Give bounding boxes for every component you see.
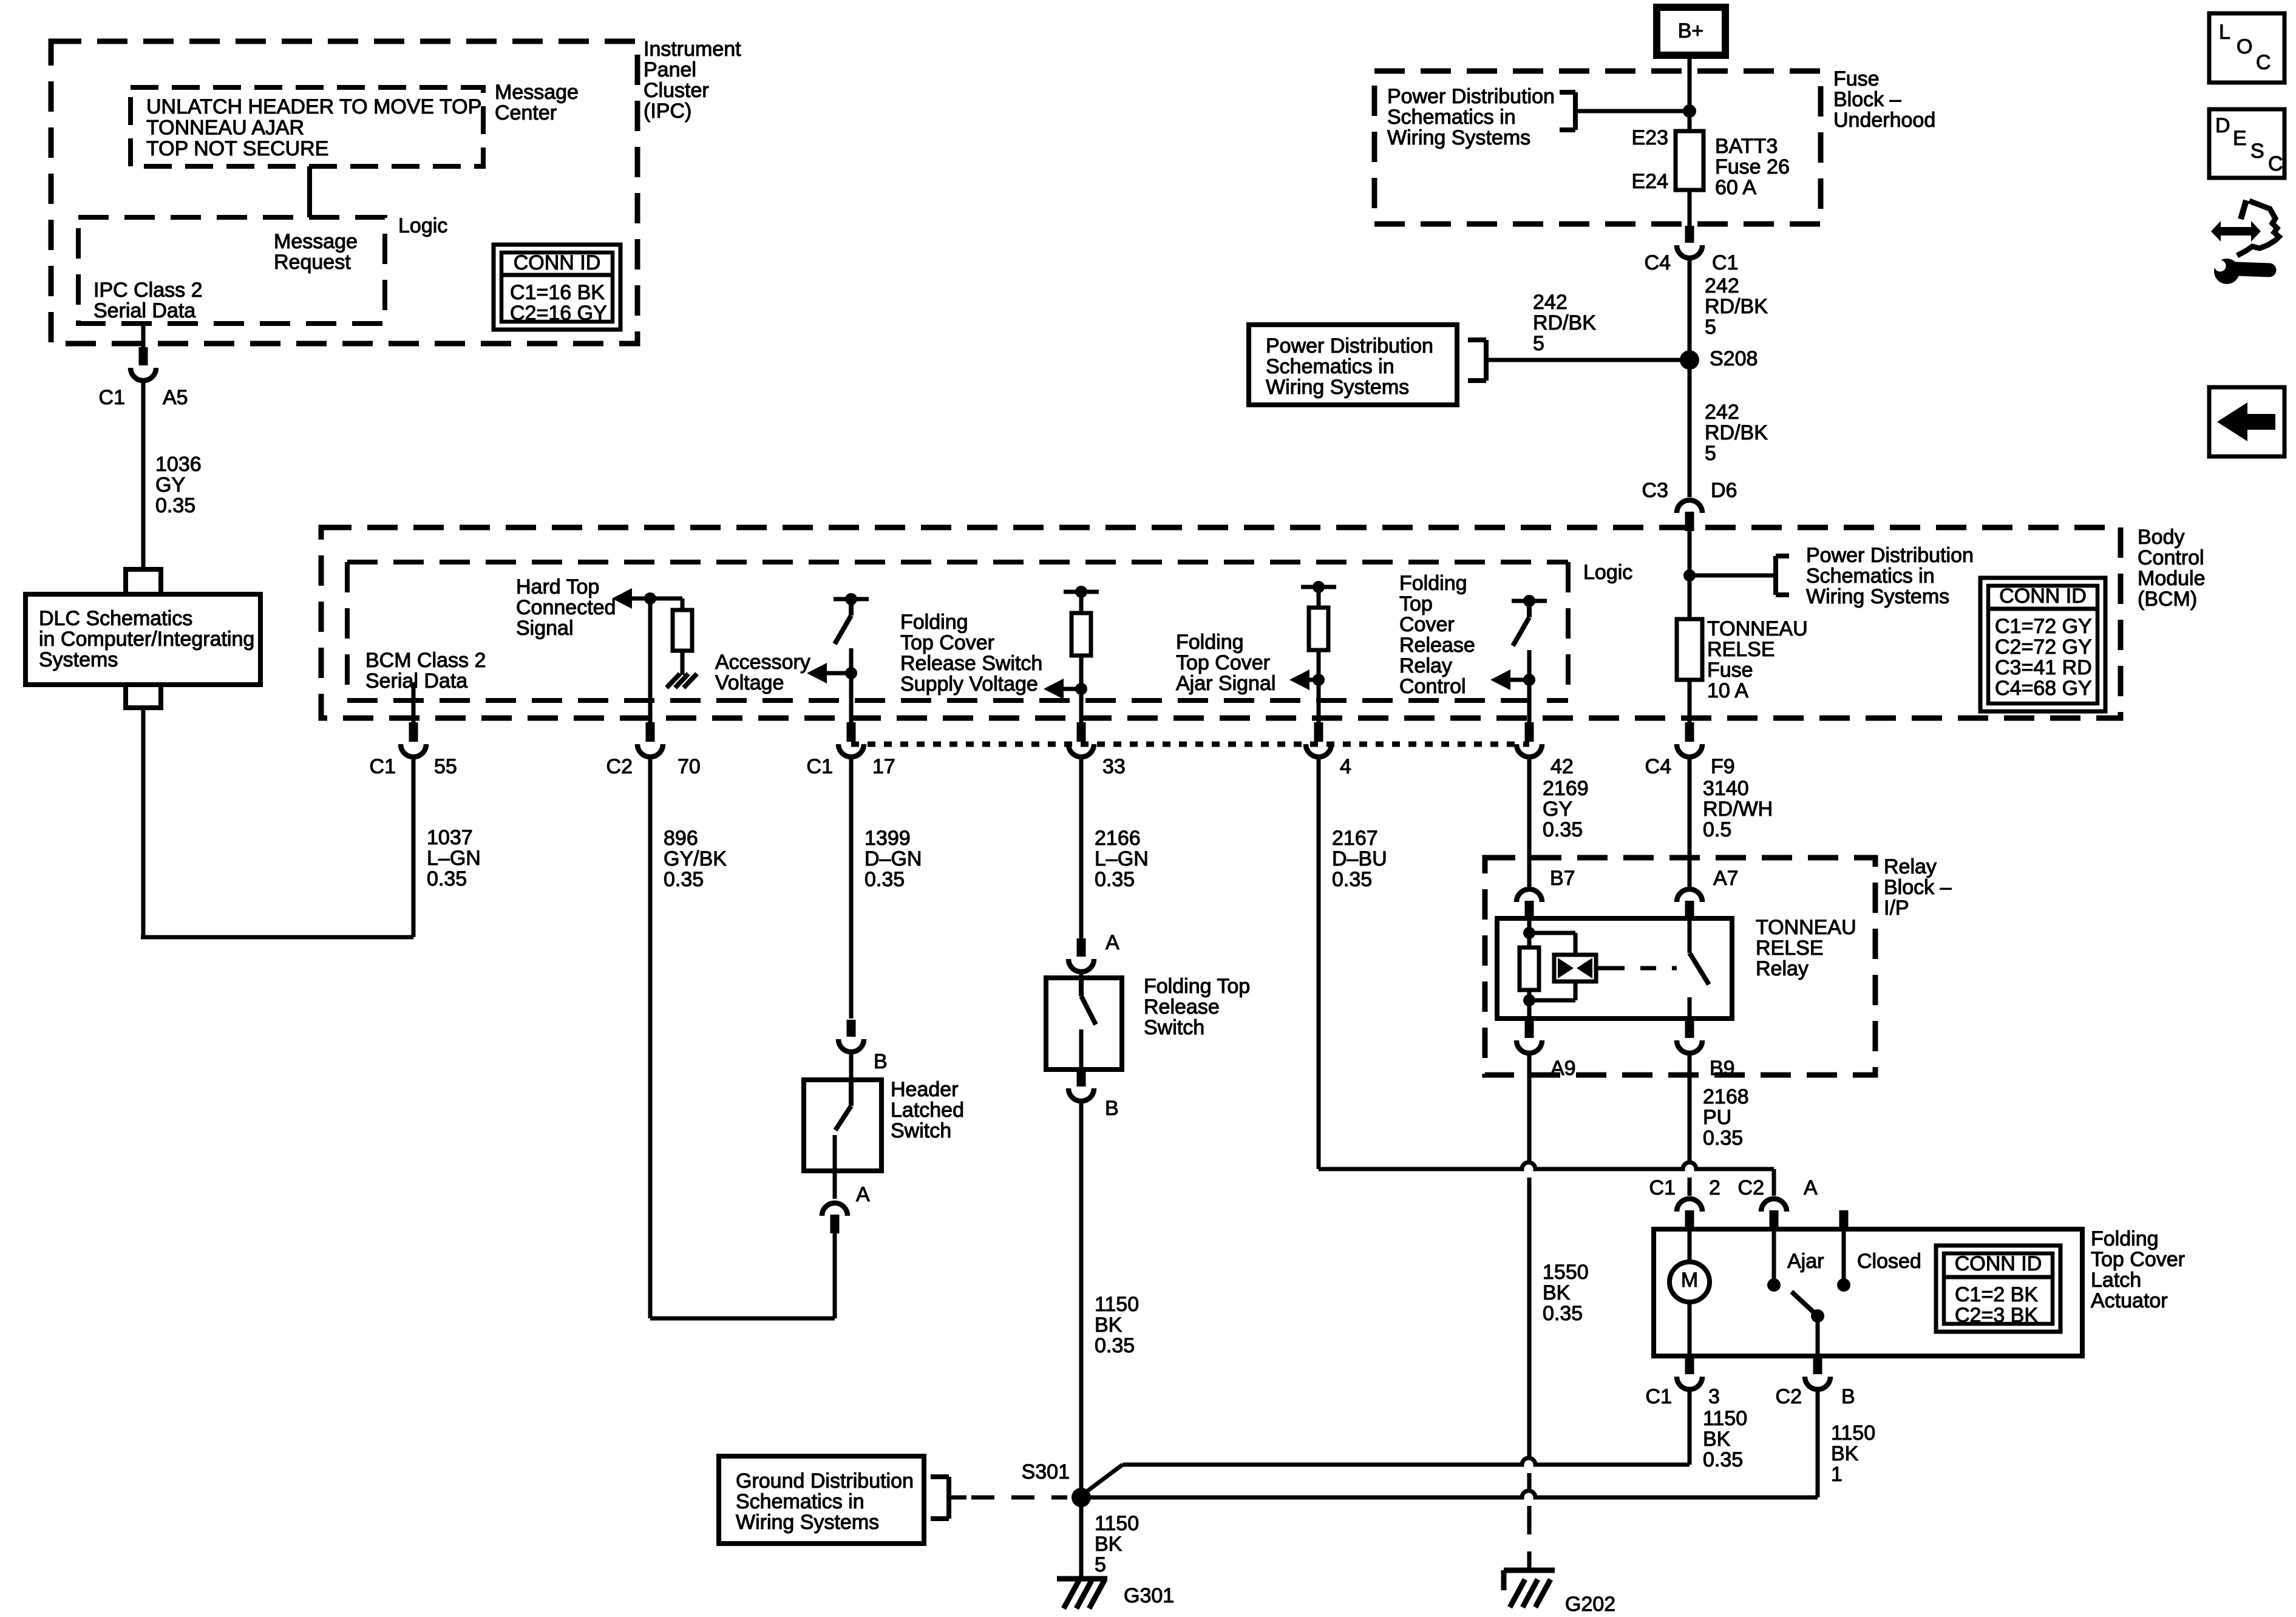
svg-text:1150: 1150 <box>1831 1422 1875 1445</box>
svg-text:UNLATCH HEADER TO MOVE TOP: UNLATCH HEADER TO MOVE TOP <box>146 95 481 118</box>
svg-text:C2: C2 <box>606 755 633 778</box>
svg-text:0.35: 0.35 <box>1095 1334 1135 1357</box>
svg-text:Power Distribution: Power Distribution <box>1806 544 1974 567</box>
svg-text:E: E <box>2233 127 2247 150</box>
svg-text:Header: Header <box>891 1078 959 1101</box>
svg-text:Folding: Folding <box>1176 631 1244 654</box>
svg-text:Center: Center <box>495 101 557 124</box>
svg-text:Voltage: Voltage <box>715 671 784 694</box>
svg-text:1150: 1150 <box>1095 1512 1139 1535</box>
svg-text:B7: B7 <box>1550 867 1575 890</box>
svg-text:5: 5 <box>1705 442 1716 465</box>
svg-text:(IPC): (IPC) <box>644 100 691 123</box>
svg-text:E24: E24 <box>1632 170 1669 193</box>
svg-text:Relay: Relay <box>1884 855 1937 878</box>
svg-text:0.35: 0.35 <box>1543 818 1583 841</box>
svg-text:E23: E23 <box>1632 126 1669 149</box>
svg-text:3: 3 <box>1708 1385 1720 1408</box>
svg-text:GY: GY <box>1543 798 1572 821</box>
svg-text:Panel: Panel <box>644 58 696 81</box>
svg-text:C1: C1 <box>1646 1385 1672 1408</box>
svg-text:Wiring Systems: Wiring Systems <box>736 1511 879 1534</box>
svg-text:Switch: Switch <box>891 1119 951 1142</box>
svg-text:Release: Release <box>1144 995 1220 1019</box>
svg-text:70: 70 <box>678 755 701 778</box>
svg-text:0.35: 0.35 <box>1095 868 1135 891</box>
svg-text:1550: 1550 <box>1543 1261 1589 1284</box>
svg-text:1150: 1150 <box>1703 1407 1747 1430</box>
svg-text:D: D <box>2215 114 2230 137</box>
svg-text:Fuse 26: Fuse 26 <box>1715 155 1790 178</box>
svg-text:33: 33 <box>1102 755 1126 778</box>
svg-text:S301: S301 <box>1022 1460 1070 1483</box>
svg-text:5: 5 <box>1533 332 1544 355</box>
svg-text:2167: 2167 <box>1332 827 1378 850</box>
svg-text:B: B <box>1841 1385 1855 1408</box>
svg-text:Schematics in: Schematics in <box>1806 564 1935 588</box>
svg-text:D–GN: D–GN <box>864 847 922 870</box>
svg-text:2: 2 <box>1709 1176 1720 1199</box>
svg-text:G202: G202 <box>1565 1593 1615 1616</box>
svg-text:L: L <box>2219 21 2230 44</box>
svg-text:896: 896 <box>664 827 698 850</box>
svg-text:0.35: 0.35 <box>155 494 195 517</box>
svg-text:DLC Schematics: DLC Schematics <box>39 607 192 630</box>
svg-text:Fuse: Fuse <box>1707 659 1753 682</box>
svg-text:242: 242 <box>1705 401 1739 424</box>
svg-text:C3: C3 <box>1642 479 1668 502</box>
svg-text:C3=41 RD: C3=41 RD <box>1995 656 2092 679</box>
svg-text:1037: 1037 <box>427 826 473 849</box>
svg-text:C: C <box>2256 51 2271 74</box>
svg-text:55: 55 <box>434 755 457 778</box>
svg-text:BK: BK <box>1703 1428 1731 1451</box>
svg-text:A: A <box>1106 931 1119 954</box>
svg-text:A: A <box>1804 1176 1818 1199</box>
svg-text:Schematics in: Schematics in <box>1266 355 1394 378</box>
svg-text:F9: F9 <box>1711 755 1735 778</box>
svg-text:L–GN: L–GN <box>427 847 481 870</box>
svg-text:GY: GY <box>155 473 185 497</box>
svg-text:1399: 1399 <box>864 827 911 850</box>
svg-text:Power Distribution: Power Distribution <box>1266 334 1433 358</box>
svg-text:Message: Message <box>274 230 358 253</box>
svg-text:Message: Message <box>495 81 579 104</box>
svg-text:Top: Top <box>1399 592 1433 615</box>
svg-text:Closed: Closed <box>1857 1250 1921 1273</box>
svg-text:RD/BK: RD/BK <box>1705 295 1768 318</box>
svg-text:Serial Data: Serial Data <box>365 670 467 693</box>
svg-text:Switch: Switch <box>1144 1016 1204 1039</box>
svg-text:TONNEAU AJAR: TONNEAU AJAR <box>146 117 304 140</box>
svg-text:IPC Class 2: IPC Class 2 <box>93 279 203 302</box>
svg-text:0.35: 0.35 <box>1543 1302 1583 1325</box>
svg-text:Ground Distribution: Ground Distribution <box>736 1470 914 1493</box>
svg-text:TONNEAU: TONNEAU <box>1707 617 1808 640</box>
svg-text:Control: Control <box>1399 675 1466 698</box>
svg-text:C1: C1 <box>99 386 125 409</box>
svg-text:1036: 1036 <box>155 453 202 476</box>
svg-text:Wiring Systems: Wiring Systems <box>1266 376 1409 399</box>
svg-text:1: 1 <box>1831 1463 1843 1486</box>
svg-text:Power Distribution: Power Distribution <box>1387 85 1555 108</box>
svg-text:C2=3 BK: C2=3 BK <box>1955 1304 2038 1327</box>
svg-text:O: O <box>2237 35 2252 58</box>
svg-text:Folding Top: Folding Top <box>1144 975 1250 998</box>
svg-text:C1=2 BK: C1=2 BK <box>1955 1283 2038 1306</box>
svg-text:3140: 3140 <box>1703 777 1749 800</box>
svg-text:Ajar: Ajar <box>1787 1250 1824 1273</box>
svg-text:Schematics in: Schematics in <box>1387 106 1516 129</box>
svg-text:L–GN: L–GN <box>1095 847 1149 870</box>
svg-text:C1: C1 <box>370 755 396 778</box>
svg-text:1150: 1150 <box>1095 1293 1139 1316</box>
svg-text:10 A: 10 A <box>1707 679 1748 702</box>
svg-text:RD/BK: RD/BK <box>1533 311 1596 334</box>
svg-text:Accessory: Accessory <box>715 651 810 674</box>
svg-text:A: A <box>856 1183 870 1206</box>
svg-text:C1: C1 <box>807 755 833 778</box>
svg-text:PU: PU <box>1703 1106 1731 1129</box>
svg-text:Instrument: Instrument <box>644 38 741 61</box>
svg-text:Module: Module <box>2138 567 2206 590</box>
svg-text:BK: BK <box>1831 1442 1859 1465</box>
svg-text:Logic: Logic <box>1583 561 1632 584</box>
svg-text:Folding: Folding <box>900 611 968 634</box>
svg-text:C2=16 GY: C2=16 GY <box>510 302 607 325</box>
svg-text:Request: Request <box>274 251 351 274</box>
svg-text:C1: C1 <box>1649 1176 1676 1199</box>
svg-text:Wiring Systems: Wiring Systems <box>1387 126 1530 149</box>
svg-text:(BCM): (BCM) <box>2138 588 2197 611</box>
svg-text:D–BU: D–BU <box>1332 847 1387 870</box>
svg-text:2169: 2169 <box>1543 777 1589 800</box>
svg-text:0.5: 0.5 <box>1703 818 1731 841</box>
svg-text:C4: C4 <box>1645 251 1671 274</box>
svg-text:Control: Control <box>2138 546 2204 569</box>
svg-text:Top Cover: Top Cover <box>1176 651 1270 674</box>
svg-text:CONN ID: CONN ID <box>1999 585 2087 608</box>
svg-text:60 A: 60 A <box>1715 176 1756 199</box>
svg-text:Signal: Signal <box>516 617 574 640</box>
svg-text:C1: C1 <box>1712 251 1738 274</box>
svg-text:0.35: 0.35 <box>1703 1448 1743 1471</box>
svg-text:BATT3: BATT3 <box>1715 135 1778 158</box>
svg-text:D6: D6 <box>1711 479 1737 502</box>
svg-text:Relay: Relay <box>1756 957 1809 980</box>
svg-text:Block –: Block – <box>1884 876 1952 899</box>
svg-text:G301: G301 <box>1124 1584 1174 1607</box>
svg-text:Actuator: Actuator <box>2091 1289 2168 1312</box>
svg-text:Schematics in: Schematics in <box>736 1490 864 1513</box>
svg-text:BK: BK <box>1543 1281 1571 1304</box>
svg-text:0.35: 0.35 <box>864 868 905 891</box>
svg-text:C1=16 BK: C1=16 BK <box>510 281 605 304</box>
svg-text:C1=72 GY: C1=72 GY <box>1995 615 2092 638</box>
svg-text:Supply Voltage: Supply Voltage <box>900 673 1038 696</box>
svg-text:B: B <box>874 1050 888 1073</box>
svg-text:I/P: I/P <box>1884 897 1909 920</box>
svg-text:Underhood: Underhood <box>1833 109 1935 132</box>
svg-text:Connected: Connected <box>516 596 616 619</box>
svg-text:C2=72 GY: C2=72 GY <box>1995 636 2092 659</box>
svg-text:in Computer/Integrating: in Computer/Integrating <box>39 628 254 651</box>
svg-text:GY/BK: GY/BK <box>664 847 727 870</box>
svg-text:Ajar Signal: Ajar Signal <box>1176 672 1275 695</box>
svg-text:CONN ID: CONN ID <box>1955 1252 2042 1275</box>
svg-text:Latch: Latch <box>2091 1269 2141 1292</box>
svg-text:A5: A5 <box>163 386 188 409</box>
svg-text:5: 5 <box>1705 316 1716 339</box>
svg-text:0.35: 0.35 <box>1703 1127 1743 1150</box>
svg-text:RD/WH: RD/WH <box>1703 798 1773 821</box>
svg-text:242: 242 <box>1533 291 1567 314</box>
svg-text:CONN ID: CONN ID <box>514 251 601 274</box>
svg-text:RELSE: RELSE <box>1707 638 1775 661</box>
svg-text:Body: Body <box>2138 526 2185 549</box>
svg-text:TONNEAU: TONNEAU <box>1756 916 1856 939</box>
svg-text:TOP NOT SECURE: TOP NOT SECURE <box>146 137 328 160</box>
svg-text:Cluster: Cluster <box>644 79 709 102</box>
svg-text:Hard Top: Hard Top <box>516 575 599 598</box>
svg-text:2168: 2168 <box>1703 1085 1749 1108</box>
svg-text:BK: BK <box>1095 1533 1123 1556</box>
svg-text:2166: 2166 <box>1095 827 1141 850</box>
svg-text:S: S <box>2250 140 2264 163</box>
svg-text:4: 4 <box>1340 755 1351 778</box>
svg-text:Logic: Logic <box>398 214 447 237</box>
svg-text:C4=68 GY: C4=68 GY <box>1995 677 2092 700</box>
svg-text:C2: C2 <box>1776 1385 1802 1408</box>
svg-text:Fuse: Fuse <box>1833 67 1880 90</box>
svg-text:S208: S208 <box>1710 347 1758 370</box>
svg-text:Folding: Folding <box>1399 572 1467 595</box>
svg-text:RD/BK: RD/BK <box>1705 421 1768 444</box>
svg-text:0.35: 0.35 <box>427 867 467 890</box>
svg-text:Top Cover: Top Cover <box>900 631 994 654</box>
svg-text:Relay: Relay <box>1399 654 1452 677</box>
svg-text:17: 17 <box>872 755 895 778</box>
svg-text:Top Cover: Top Cover <box>2091 1248 2185 1271</box>
svg-text:Wiring Systems: Wiring Systems <box>1806 585 1949 608</box>
svg-text:0.35: 0.35 <box>1332 868 1372 891</box>
svg-text:Cover: Cover <box>1399 613 1455 636</box>
svg-text:C4: C4 <box>1645 755 1671 778</box>
svg-text:Latched: Latched <box>891 1099 964 1122</box>
svg-text:Systems: Systems <box>39 648 118 671</box>
svg-text:RELSE: RELSE <box>1756 937 1824 960</box>
svg-text:42: 42 <box>1550 755 1574 778</box>
svg-text:B: B <box>1105 1097 1119 1120</box>
svg-text:BK: BK <box>1095 1314 1123 1337</box>
svg-text:BCM Class 2: BCM Class 2 <box>365 649 486 672</box>
svg-text:C2: C2 <box>1738 1176 1764 1199</box>
svg-text:5: 5 <box>1095 1553 1106 1576</box>
svg-text:0.35: 0.35 <box>664 868 704 891</box>
svg-text:A9: A9 <box>1550 1057 1576 1080</box>
svg-text:Folding: Folding <box>2091 1227 2159 1250</box>
svg-text:B9: B9 <box>1710 1057 1735 1080</box>
svg-text:Release: Release <box>1399 634 1475 657</box>
svg-text:242: 242 <box>1705 274 1739 297</box>
svg-text:A7: A7 <box>1713 867 1739 890</box>
svg-text:M: M <box>1681 1269 1698 1292</box>
svg-text:Serial Data: Serial Data <box>93 299 195 322</box>
svg-text:Release Switch: Release Switch <box>900 652 1042 675</box>
svg-text:Block –: Block – <box>1833 88 1901 111</box>
svg-text:B+: B+ <box>1678 19 1704 42</box>
svg-text:C: C <box>2268 152 2283 175</box>
